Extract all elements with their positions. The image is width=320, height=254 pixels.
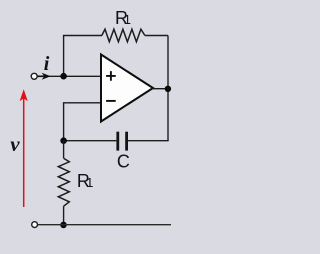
current arrow i (black, pointing right): [38, 75, 45, 77]
resistor R1 (top, horizontal zigzag): [102, 29, 145, 42]
node: capacitor-left junction dot: [60, 137, 67, 144]
op-amp + input marking: [106, 71, 116, 81]
wire: capacitor right lead: [128, 140, 169, 142]
wire: top rail left segment: [63, 35, 102, 37]
svg-text:i: i: [44, 53, 50, 75]
wire: op-amp output to right rail: [152, 88, 168, 90]
resistor R1 (bottom, vertical zigzag): [58, 158, 69, 206]
voltage arrow v (red, pointing up): [23, 96, 25, 207]
wire: capacitor left lead: [64, 140, 117, 142]
terminal: bottom-left open circle: [32, 222, 38, 228]
node: bottom junction dot: [60, 222, 67, 229]
op-amp - input marking: [106, 100, 116, 102]
wire: feedback vertical from junction up to top rail: [63, 36, 65, 77]
wire: inverting input vertical drop: [63, 103, 65, 141]
svg-text:1: 1: [124, 12, 131, 27]
wire: right rail vertical: [167, 36, 169, 141]
wire: resistor to bottom rail: [63, 206, 65, 225]
svg-text:C: C: [117, 152, 130, 172]
svg-text:v: v: [10, 132, 20, 156]
wire: top rail right segment: [145, 35, 168, 37]
svg-text:1: 1: [86, 175, 93, 190]
wire: top-left terminal to op-amp + input: [37, 75, 101, 77]
wire: bottom rail: [38, 224, 172, 226]
node: + input junction dot: [60, 73, 67, 80]
node: output junction dot: [165, 86, 171, 92]
wire: inverting input horizontal: [63, 102, 101, 104]
op-amp U1 triangle: [101, 55, 153, 122]
wire: junction down to resistor R1 (bottom): [63, 141, 65, 159]
capacitor C plates: [116, 132, 119, 151]
terminal: top-left open circle: [31, 73, 37, 79]
